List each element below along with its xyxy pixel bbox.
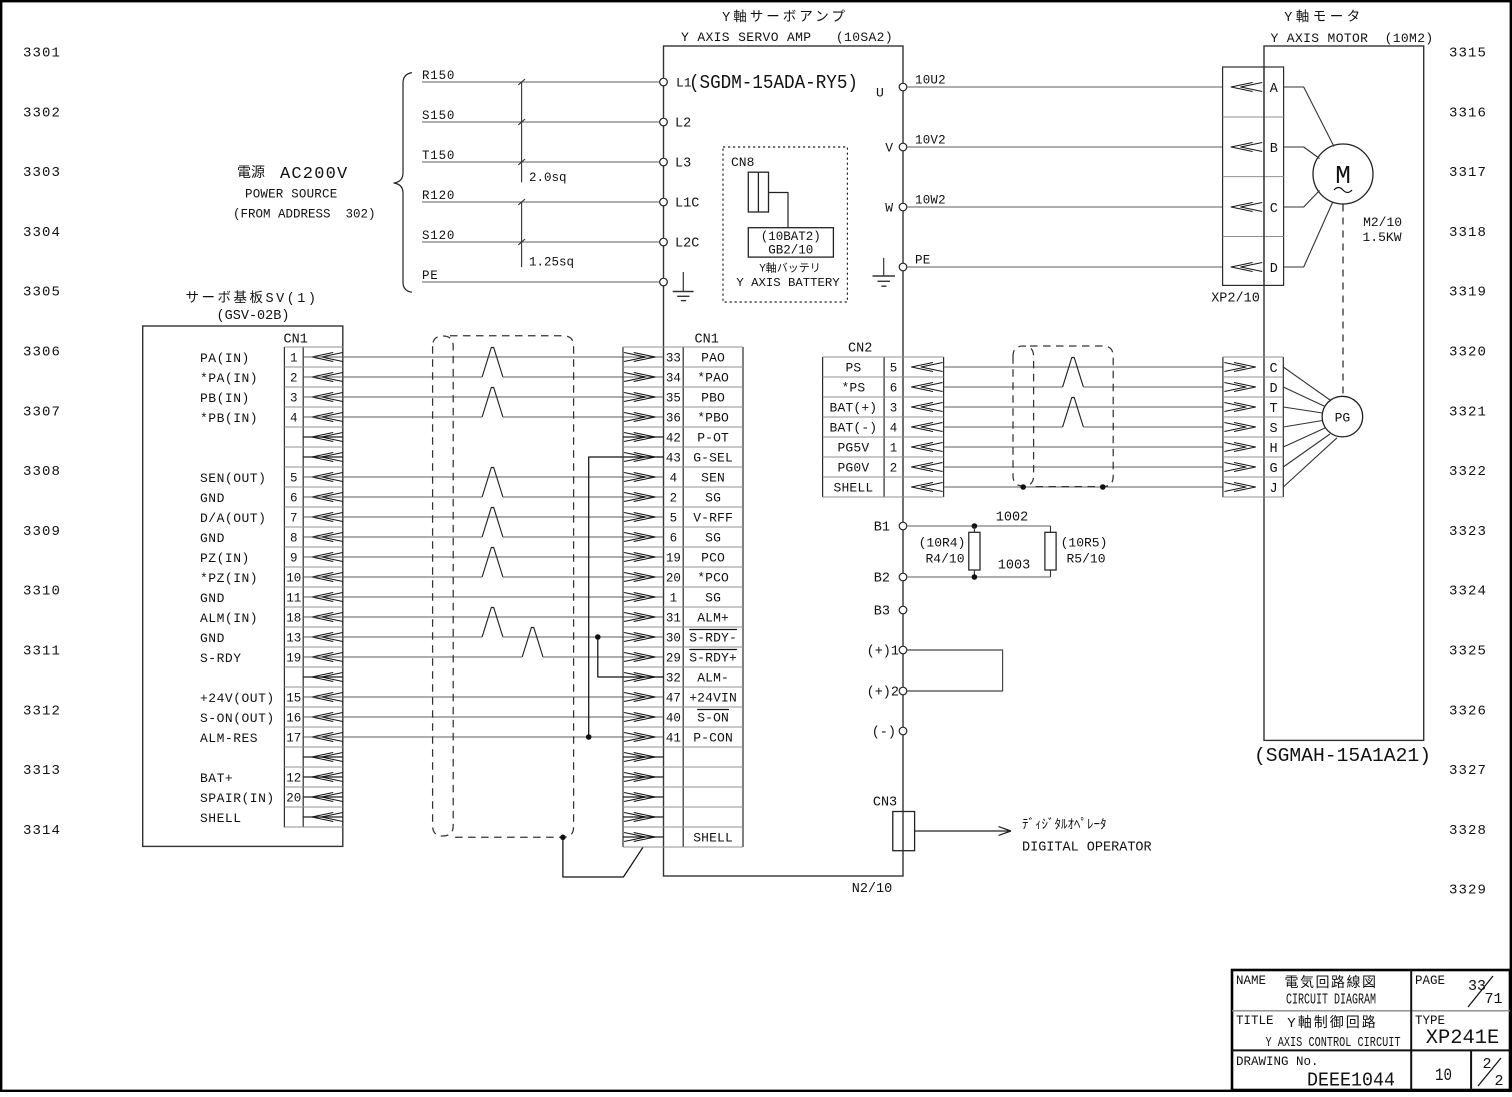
svg-text:3317: 3317	[1449, 165, 1487, 181]
svg-text:71: 71	[1484, 991, 1502, 1008]
svg-text:SG: SG	[705, 491, 721, 506]
SV CN1 pin 8 GND	[200, 531, 343, 546]
wire CN2 to encoder connector row y=427	[944, 398, 1223, 428]
SV CN1 pin - row21	[303, 753, 343, 762]
svg-text:Y AXIS CONTROL CIRCUIT: Y AXIS CONTROL CIRCUIT	[1266, 1035, 1401, 1051]
svg-text:(10R5): (10R5)	[1061, 536, 1108, 551]
svg-text:PG5V: PG5V	[837, 441, 869, 456]
svg-text:10V2: 10V2	[915, 133, 946, 147]
wire encoder pin C to PG	[1283, 367, 1330, 400]
svg-text:10U2: 10U2	[915, 73, 946, 87]
svg-text:ﾃﾞｨｼﾞﾀﾙｵﾍﾟﾚｰﾀ: ﾃﾞｨｼﾞﾀﾙｵﾍﾟﾚｰﾀ	[1022, 818, 1107, 833]
svg-text:(+)1: (+)1	[867, 645, 899, 660]
svg-text:6: 6	[290, 492, 298, 506]
svg-text:Y軸バッテリ: Y軸バッテリ	[759, 261, 821, 276]
svg-text:ALM-: ALM-	[697, 671, 729, 686]
svg-text:31: 31	[666, 612, 681, 626]
amp CN1 pin 34 *PAO	[624, 371, 729, 386]
svg-text:(SGMAH-15A1A21): (SGMAH-15A1A21)	[1254, 745, 1431, 767]
encoder connector pin S	[1224, 422, 1277, 437]
wire SV CN1 to amp CN1 at row y=517	[303, 516, 663, 518]
servo board SV(1) box (GSV-02B)	[143, 326, 343, 846]
svg-text:32: 32	[666, 672, 681, 686]
wire CN2 to encoder connector row y=447	[944, 446, 1223, 448]
wire SV CN1 to amp CN1 at row y=657	[303, 628, 663, 658]
svg-text:DIGITAL OPERATOR: DIGITAL OPERATOR	[1022, 841, 1152, 856]
svg-text:S-RDY: S-RDY	[200, 651, 242, 666]
SV CN1 pin 15 +24V(OUT)	[200, 691, 343, 706]
shielded cable outline wide (SV-amp cable)	[450, 336, 574, 837]
svg-text:3314: 3314	[23, 823, 61, 839]
wire SV CN1 to amp CN1 at row y=717	[303, 716, 663, 718]
wire B1 to resistor network, net 1002	[907, 511, 1051, 527]
svg-text:Y軸制御回路: Y軸制御回路	[1287, 1015, 1377, 1032]
wire branch P-CON row to G-SEL pin 43	[589, 457, 664, 737]
XP2/10 pin A	[1231, 82, 1279, 97]
terminal L1	[660, 78, 668, 86]
svg-text:GND: GND	[200, 491, 225, 506]
SV CN1 pin 12 BAT+	[200, 771, 343, 786]
svg-text:3320: 3320	[1449, 345, 1487, 361]
resistor R5 (10R5) R5/10	[1045, 526, 1108, 577]
cable size tick line 2.0sq	[518, 79, 566, 185]
svg-text:S150: S150	[422, 109, 455, 123]
junction dot B2-R4	[972, 574, 978, 580]
encoder connector pin T	[1224, 402, 1277, 417]
connector CN1 on servo amp	[623, 333, 743, 848]
svg-text:3323: 3323	[1449, 524, 1487, 540]
ground symbol near PE output	[873, 258, 896, 286]
svg-text:N2/10: N2/10	[852, 882, 893, 897]
terminal W	[885, 201, 907, 216]
XP2/10 pin C	[1231, 202, 1278, 217]
svg-text:CIRCUIT DIAGRAM: CIRCUIT DIAGRAM	[1286, 993, 1376, 1009]
amp CN1 pin - row24	[623, 813, 664, 822]
wire SV CN1 to amp CN1 at row y=637	[303, 608, 663, 638]
title block DRAWING No. DEEE1044	[1236, 1055, 1395, 1092]
amp CN1 pin 47 +24VIN	[624, 691, 737, 706]
svg-text:3302: 3302	[23, 105, 61, 121]
svg-text:B: B	[1270, 142, 1278, 157]
svg-text:3: 3	[890, 402, 898, 416]
svg-text:L2C: L2C	[675, 237, 699, 252]
wire SV CN1 to amp CN1 at row y=377	[303, 348, 663, 378]
svg-text:1: 1	[290, 352, 298, 366]
svg-text:CN3: CN3	[873, 796, 897, 811]
cable size tick line 1.25sq	[518, 199, 574, 269]
connector encoder pins on motor	[1223, 357, 1283, 497]
amp CN1 pin 1 SG	[624, 591, 721, 606]
svg-text:サーボ基板SV(1): サーボ基板SV(1)	[185, 289, 318, 307]
amp CN1 pin - row21	[623, 753, 664, 762]
svg-text:3310: 3310	[23, 584, 61, 600]
SV CN1 pin - row6	[303, 453, 343, 462]
svg-text:B2: B2	[874, 572, 890, 587]
svg-text:NAME: NAME	[1236, 974, 1266, 988]
svg-text:8: 8	[290, 532, 298, 546]
svg-text:PG: PG	[1335, 411, 1351, 426]
svg-text:XP241E: XP241E	[1426, 1027, 1500, 1050]
svg-text:47: 47	[666, 692, 681, 706]
svg-text:3322: 3322	[1449, 464, 1487, 480]
svg-text:PE: PE	[915, 253, 930, 267]
amp CN1 pin - row22	[623, 773, 664, 782]
svg-text:*PS: *PS	[841, 381, 865, 396]
svg-text:*PAO: *PAO	[697, 371, 729, 386]
terminal PE right	[899, 263, 907, 271]
wire power T150 to servo amp	[422, 149, 664, 163]
svg-text:33: 33	[666, 352, 681, 366]
wire encoder pin T to PG	[1283, 407, 1322, 413]
svg-text:R5/10: R5/10	[1066, 552, 1105, 567]
svg-text:ALM(IN): ALM(IN)	[200, 611, 258, 626]
svg-text:L3: L3	[675, 157, 691, 172]
svg-text:V: V	[885, 141, 893, 156]
svg-text:36: 36	[666, 412, 681, 426]
terminal (+)2	[867, 686, 907, 701]
svg-text:16: 16	[286, 712, 301, 726]
svg-text:PE: PE	[422, 269, 439, 283]
net address labels right column 3315-3329	[1449, 46, 1487, 899]
svg-text:6: 6	[670, 532, 678, 546]
svg-text:3324: 3324	[1449, 584, 1487, 600]
svg-text:6: 6	[890, 382, 898, 396]
svg-text:T150: T150	[422, 149, 455, 163]
motor M1 symbol circle	[1313, 144, 1373, 204]
svg-text:D: D	[1270, 262, 1278, 277]
amp CN1 pin - row23	[623, 793, 664, 802]
svg-text:3307: 3307	[23, 404, 61, 420]
SV CN1 pin - SHELL	[200, 811, 343, 826]
svg-text:S: S	[1270, 422, 1278, 437]
CN2 pin 4 BAT(-)	[830, 421, 943, 436]
svg-text:35: 35	[666, 392, 681, 406]
junction dot B1-R4	[972, 523, 978, 529]
amp CN1 pin 29 S-RDY+	[624, 650, 737, 666]
motor rating label M2/10 1.5KW	[1362, 215, 1402, 245]
svg-text:3306: 3306	[23, 345, 61, 361]
svg-text:33: 33	[1468, 978, 1486, 995]
wire power PE to servo amp	[422, 269, 664, 283]
svg-text:2: 2	[670, 492, 678, 506]
svg-text:4: 4	[290, 412, 298, 426]
svg-text:3325: 3325	[1449, 644, 1487, 660]
resistor R4 (10R4) R4/10	[919, 526, 980, 577]
connector XP2/10 motor power	[1223, 67, 1284, 285]
jumper wire (+)1 to (+)2	[907, 650, 1003, 691]
wire PE amp to motor connector	[907, 253, 1223, 267]
amp CN1 pin 31 ALM+	[624, 611, 729, 626]
amp CN1 pin 32 ALM-	[624, 671, 729, 686]
wire 10V2 amp to motor connector	[907, 133, 1223, 147]
svg-text:*PZ(IN): *PZ(IN)	[200, 571, 258, 586]
wire SV CN1 to amp CN1 at row y=417	[303, 388, 663, 418]
XP2/10 pin B	[1231, 142, 1278, 157]
svg-text:3: 3	[290, 392, 298, 406]
wire encoder pin J to PG	[1283, 438, 1337, 487]
amp CN1 pin 5 V-RFF	[624, 511, 733, 526]
svg-text:S-RDY+: S-RDY+	[689, 651, 737, 666]
svg-text:GND: GND	[200, 631, 225, 646]
svg-text:P-OT: P-OT	[697, 431, 729, 446]
svg-text:R150: R150	[422, 69, 455, 83]
svg-text:D/A(OUT): D/A(OUT)	[200, 511, 266, 526]
SV CN1 pin 1 PA(IN)	[200, 351, 343, 366]
svg-text:H: H	[1270, 442, 1278, 457]
amp CN1 pin 4 SEN	[624, 471, 725, 486]
terminal U	[899, 83, 907, 91]
amp CN1 pin 19 PCO	[624, 551, 725, 566]
svg-text:GND: GND	[200, 531, 225, 546]
svg-text:15: 15	[286, 692, 301, 706]
svg-text:M2/10: M2/10	[1363, 215, 1402, 230]
brace grouping power source wires	[394, 73, 412, 293]
svg-text:41: 41	[666, 732, 681, 746]
amp CN1 pin - SHELL	[623, 831, 733, 846]
svg-text:17: 17	[286, 732, 301, 746]
title block TYPE XP241E	[1415, 1014, 1499, 1050]
svg-text:SEN(OUT): SEN(OUT)	[200, 471, 266, 486]
arrow CN3 to digital operator	[915, 827, 1011, 836]
wire 10U2 amp to motor connector	[907, 73, 1223, 87]
svg-text:11: 11	[286, 592, 301, 606]
svg-text:DRAWING No.: DRAWING No.	[1236, 1055, 1319, 1069]
svg-text:2: 2	[1494, 1073, 1503, 1090]
svg-text:PA(IN): PA(IN)	[200, 351, 250, 366]
svg-text:V-RFF: V-RFF	[693, 511, 733, 526]
svg-text:*PB(IN): *PB(IN)	[200, 411, 258, 426]
svg-text:9: 9	[290, 552, 298, 566]
svg-text:A: A	[1270, 82, 1279, 97]
svg-text:S-ON(OUT): S-ON(OUT)	[200, 711, 275, 726]
svg-text:*PBO: *PBO	[697, 411, 729, 426]
terminal B3	[874, 605, 907, 620]
connector CN1 on servo board	[284, 333, 343, 828]
svg-text:U: U	[876, 86, 884, 101]
CN2 pin 5 PS	[845, 361, 942, 376]
svg-text:TITLE: TITLE	[1236, 1014, 1274, 1028]
svg-text:CN1: CN1	[695, 333, 719, 348]
wire CN2 to encoder connector row y=467	[944, 466, 1223, 468]
svg-text:Y AXIS SERVO AMP (10SA2): Y AXIS SERVO AMP (10SA2)	[681, 30, 893, 45]
svg-text:PAGE: PAGE	[1415, 974, 1445, 988]
svg-text:3308: 3308	[23, 464, 61, 480]
wire power R120 to servo amp	[422, 189, 664, 203]
title block	[1232, 970, 1510, 1090]
svg-text:1.5KW: 1.5KW	[1362, 230, 1401, 245]
CN2 pin - SHELL	[834, 481, 943, 496]
amp CN1 pin 40 S-ON	[624, 710, 729, 726]
wire power S120 to servo amp	[422, 229, 664, 243]
svg-text:L1C: L1C	[675, 197, 699, 212]
svg-text:1002: 1002	[996, 511, 1028, 526]
svg-text:(+)2: (+)2	[867, 686, 899, 701]
servo amp U1 box Y AXIS SERVO AMP (10SA2)	[664, 46, 904, 876]
svg-text:GND: GND	[200, 591, 225, 606]
svg-text:SG: SG	[705, 591, 721, 606]
motor title	[1270, 9, 1433, 46]
SV CN1 pin 3 PB(IN)	[200, 391, 343, 406]
svg-text:(10BAT2): (10BAT2)	[761, 230, 821, 244]
svg-text:3319: 3319	[1449, 285, 1487, 301]
svg-text:10: 10	[286, 572, 301, 586]
SV CN1 pin 9 PZ(IN)	[200, 551, 343, 566]
svg-text:GB2/10: GB2/10	[768, 244, 813, 258]
svg-text:TYPE: TYPE	[1415, 1014, 1445, 1028]
SV CN1 pin 13 GND	[200, 631, 343, 646]
title block TITLE field	[1236, 1014, 1401, 1051]
wire SV CN1 to amp CN1 at row y=477	[303, 476, 663, 478]
encoder connector pin D	[1224, 382, 1277, 397]
svg-text:Y軸モータ: Y軸モータ	[1284, 9, 1364, 26]
wire encoder pin S to PG	[1283, 421, 1322, 428]
wire SV CN1 to amp CN1 at row y=737	[303, 736, 663, 738]
wire SV CN1 to amp CN1 at row y=697	[303, 696, 663, 698]
SV CN1 pin 6 GND	[200, 491, 343, 506]
wire SV CN1 to amp CN1 at row y=397	[303, 396, 663, 398]
svg-text:Y軸サーボアンプ: Y軸サーボアンプ	[722, 9, 848, 26]
junction dot on P-CON wire	[586, 734, 592, 740]
SV CN1 pin 18 ALM(IN)	[200, 611, 343, 626]
svg-text:C: C	[1270, 362, 1278, 377]
wire SV CN1 to amp CN1 at row y=357	[303, 356, 663, 358]
wire SV CN1 to amp CN1 at row y=537	[303, 508, 663, 538]
svg-text:1.25sq: 1.25sq	[529, 256, 574, 270]
connector CN3 digital operator port	[873, 796, 915, 851]
wire XP2/10 C to motor	[1284, 191, 1320, 208]
encoder connector pin H	[1224, 442, 1277, 457]
terminal L2C	[660, 237, 700, 252]
wire XP2/10 A to motor	[1284, 87, 1334, 147]
CN2 pin 6 *PS	[841, 381, 942, 396]
svg-text:3318: 3318	[1449, 225, 1487, 241]
servo board title	[185, 289, 318, 324]
encoder PG circle	[1322, 396, 1363, 437]
amp CN1 pin 36 *PBO	[624, 411, 729, 426]
servo amp title	[681, 9, 893, 45]
svg-text:3303: 3303	[23, 165, 61, 181]
terminal V	[885, 141, 907, 156]
terminal L3	[660, 157, 692, 172]
wire XP2/10 D to motor	[1284, 203, 1333, 268]
shield junction dot CN2 cable right	[1100, 484, 1106, 490]
amp CN1 pin 20 *PCO	[624, 571, 729, 586]
CN8 plug symbol	[748, 172, 768, 212]
SV CN1 pin 17 ALM-RES	[200, 731, 343, 746]
SV CN1 pin 4 *PB(IN)	[200, 411, 343, 426]
svg-text:(-): (-)	[872, 726, 896, 741]
svg-text:BAT(+): BAT(+)	[830, 401, 878, 416]
svg-text:SG: SG	[705, 531, 721, 546]
svg-text:*PCO: *PCO	[697, 571, 729, 586]
wire SV CN1 to amp CN1 at row y=597	[303, 596, 663, 598]
XP2/10 pin D	[1231, 262, 1278, 277]
svg-text:30: 30	[666, 632, 681, 646]
connector CN8 dotted enclosure	[723, 147, 847, 302]
svg-text:PBO: PBO	[701, 391, 725, 406]
SV CN1 pin 20 SPAIR(IN)	[200, 791, 343, 806]
svg-text:B1: B1	[874, 521, 890, 536]
terminal B2	[874, 572, 907, 587]
svg-text:2: 2	[290, 372, 298, 386]
SV CN1 pin 5 SEN(OUT)	[200, 471, 343, 486]
amp CN1 pin 41 P-CON	[624, 731, 733, 746]
wire SV CN1 to amp CN1 at row y=617	[303, 616, 663, 618]
svg-text:+24VIN: +24VIN	[689, 691, 737, 706]
svg-text:(GSV-02B): (GSV-02B)	[217, 309, 290, 324]
encoder connector pin G	[1224, 462, 1277, 477]
battery caption Y AXIS BATTERY	[736, 261, 840, 291]
svg-text:S120: S120	[422, 229, 455, 243]
wire SV CN1 to amp CN1 at row y=497	[303, 468, 663, 498]
svg-text:12: 12	[286, 772, 301, 786]
svg-text:S-RDY-: S-RDY-	[689, 631, 737, 646]
svg-text:R120: R120	[422, 189, 455, 203]
SV CN1 pin 19 S-RDY	[200, 651, 343, 666]
svg-text:D: D	[1270, 382, 1278, 397]
shield drain wire to amp CN1 shell	[563, 837, 643, 877]
svg-text:J: J	[1270, 482, 1278, 497]
terminal L2	[660, 117, 692, 132]
label digital operator	[1022, 818, 1152, 856]
wire CN2 to encoder connector row y=367	[944, 366, 1223, 368]
SV CN1 pin 7 D/A(OUT)	[200, 511, 343, 526]
svg-text:3321: 3321	[1449, 404, 1487, 420]
encoder connector pin C	[1224, 362, 1277, 377]
svg-text:20: 20	[666, 572, 681, 586]
svg-text:BAT(-): BAT(-)	[830, 421, 878, 436]
svg-text:電気回路線図: 電気回路線図	[1285, 975, 1378, 992]
svg-text:4: 4	[890, 422, 898, 436]
wire CN2 to encoder connector row y=407	[944, 406, 1223, 408]
SV CN1 pin 16 S-ON(OUT)	[200, 711, 343, 726]
net address labels left column 3301-3314	[23, 46, 61, 839]
svg-text:3313: 3313	[23, 763, 61, 779]
svg-text:*PA(IN): *PA(IN)	[200, 371, 258, 386]
svg-text:T: T	[1270, 402, 1278, 417]
svg-text:3312: 3312	[23, 703, 61, 719]
CN2 pin 2 PG0V	[837, 461, 942, 476]
svg-text:40: 40	[666, 712, 681, 726]
wire 10W2 amp to motor connector	[907, 193, 1223, 207]
terminal (+)1	[867, 645, 907, 660]
svg-text:PZ(IN): PZ(IN)	[200, 551, 250, 566]
shielded cable capsule narrow (SV side)	[433, 336, 454, 836]
terminal PE left with circle	[660, 278, 668, 286]
svg-text:PB(IN): PB(IN)	[200, 391, 250, 406]
svg-text:SHELL: SHELL	[200, 811, 242, 826]
connector CN2 on servo amp	[823, 342, 944, 498]
svg-text:R4/10: R4/10	[925, 552, 964, 567]
SV CN1 pin 11 GND	[200, 591, 343, 606]
shield junction dot CN2 cable left	[1020, 484, 1026, 490]
svg-text:ALM+: ALM+	[697, 611, 729, 626]
shielded cable outline wide (CN2 cable)	[1030, 346, 1113, 487]
wire CN8 plug to battery	[769, 193, 789, 228]
svg-text:13: 13	[286, 632, 301, 646]
svg-text:19: 19	[666, 552, 681, 566]
svg-text:PAO: PAO	[701, 351, 725, 366]
svg-text:1: 1	[670, 592, 678, 606]
svg-text:18: 18	[286, 612, 301, 626]
svg-text:POWER SOURCE: POWER SOURCE	[245, 188, 337, 202]
svg-text:42: 42	[666, 432, 681, 446]
svg-text:1003: 1003	[998, 558, 1030, 573]
svg-text:ALM-RES: ALM-RES	[200, 731, 258, 746]
svg-text:3301: 3301	[23, 46, 61, 62]
svg-text:M: M	[1335, 161, 1351, 191]
amp CN1 pin 35 PBO	[624, 391, 725, 406]
